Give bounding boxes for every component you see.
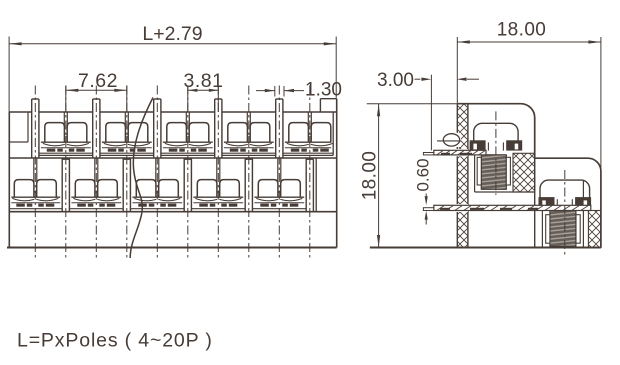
- side bottom line: [370, 247, 601, 249]
- dimension 18.00 left: [360, 104, 458, 248]
- upper pin: [423, 149, 486, 156]
- lower terminal centerline: [564, 170, 566, 258]
- pole centerlines: [35, 86, 310, 259]
- svg-text:3.00: 3.00: [377, 70, 414, 91]
- left edge: [8, 112, 10, 248]
- base bottom line: [7, 247, 337, 249]
- side outline step: [535, 158, 601, 247]
- terminal unit bottom row 3: [130, 158, 184, 212]
- pin tab top row 3: [154, 99, 161, 158]
- terminal unit top row 1: [39, 112, 93, 155]
- top-right tab: [320, 99, 336, 112]
- left wall hatched: [457, 104, 468, 248]
- terminal unit top row 4: [222, 112, 276, 155]
- dimension 0.60: [414, 158, 433, 224]
- terminal unit bottom row 5: [252, 158, 306, 212]
- housing mid line: [9, 157, 336, 159]
- pin tab top row 4: [215, 99, 222, 158]
- terminal unit top row 3: [161, 112, 215, 155]
- pin tab top row 1: [32, 99, 39, 158]
- left end notch: [9, 112, 28, 142]
- bottom-right end plate: [315, 158, 317, 212]
- terminal unit bottom row 1: [9, 158, 62, 212]
- svg-text:L=PxPoles ( 4~20P ): L=PxPoles ( 4~20P ): [17, 330, 213, 352]
- terminal unit bottom row 4: [191, 158, 245, 212]
- lower cavity left wall: [541, 206, 543, 248]
- pin tab bottom row 5: [306, 159, 313, 212]
- upper terminal cap and clamp: [470, 123, 523, 150]
- svg-text:L+2.79: L+2.79: [142, 23, 202, 45]
- terminal unit top row 5: [283, 112, 333, 155]
- dimension 3.81: [184, 70, 224, 112]
- pin tab bottom row 1: [62, 159, 69, 212]
- upper screw threads: [477, 155, 510, 190]
- upper terminal centerline: [495, 111, 497, 195]
- upper block inner boundary: [534, 158, 536, 247]
- svg-text:1.30: 1.30: [305, 80, 342, 101]
- terminal unit top row 2: [100, 112, 154, 155]
- pin tab bottom row 4: [245, 159, 252, 212]
- wire funnel: [437, 133, 461, 147]
- svg-text:0.60: 0.60: [414, 158, 433, 191]
- dimension 18.00 top: [457, 20, 601, 172]
- dimension 3.00: [377, 70, 479, 150]
- lower right wall hatched: [588, 211, 601, 248]
- pin tab top row 2: [93, 99, 100, 158]
- dimension L+2.79: [9, 23, 336, 112]
- svg-text:3.81: 3.81: [184, 70, 224, 92]
- lower pin: [423, 204, 590, 212]
- upper cavity floor: [475, 191, 535, 193]
- upper cavity left wall: [474, 153, 476, 192]
- label formula: [17, 330, 213, 352]
- housing top line: [9, 111, 336, 113]
- svg-text:18.00: 18.00: [360, 151, 381, 201]
- lower cavity right wall: [582, 180, 584, 247]
- lower terminal cap and clamp: [539, 180, 592, 207]
- break line: [130, 98, 153, 259]
- svg-text:7.62: 7.62: [78, 70, 118, 92]
- upper cavity wall hatched: [513, 153, 535, 192]
- pin tab bottom row 2: [123, 159, 130, 212]
- pin tab bottom row 3: [184, 159, 191, 212]
- svg-text:18.00: 18.00: [497, 20, 547, 41]
- dimension 7.62: [66, 70, 127, 112]
- side outline top: [457, 104, 534, 159]
- right edge: [336, 99, 338, 248]
- dimension 1.30: [256, 80, 342, 101]
- terminal unit bottom row 2: [69, 158, 123, 212]
- lower screw threads: [546, 211, 581, 247]
- housing bottom-row line: [9, 211, 336, 213]
- pin tab top row 5: [276, 99, 283, 158]
